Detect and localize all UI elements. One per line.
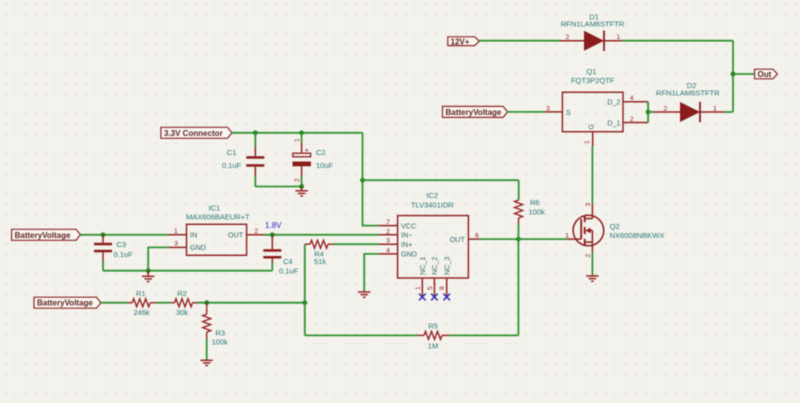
svg-text:NC_2: NC_2 <box>430 257 439 275</box>
svg-text:4: 4 <box>630 95 634 102</box>
svg-text:OUT: OUT <box>228 231 244 240</box>
svg-text:RFN1LAM6STFTR: RFN1LAM6STFTR <box>561 20 625 29</box>
svg-text:IN+: IN+ <box>401 240 412 249</box>
ground below IC2 <box>358 292 370 297</box>
svg-text:IN−: IN− <box>401 231 412 240</box>
wire D1 to corner <box>622 40 733 42</box>
wire bottom rail C3 to C4 <box>103 270 272 272</box>
svg-text:1: 1 <box>565 232 569 239</box>
svg-text:3.3V Connector: 3.3V Connector <box>164 129 223 138</box>
svg-text:BatteryVoltage: BatteryVoltage <box>15 231 71 240</box>
IC op-amp IC1 <box>168 224 264 255</box>
no-connect X marks <box>419 294 450 301</box>
node Q1 drains <box>646 110 651 115</box>
wire OUT vertical <box>517 239 519 335</box>
svg-text:RFN1LAM6STFTR: RFN1LAM6STFTR <box>656 89 720 98</box>
svg-text:8: 8 <box>439 286 446 290</box>
svg-text:1: 1 <box>713 105 717 112</box>
node divider to R4/R5 <box>302 300 307 305</box>
svg-text:NC_3: NC_3 <box>442 257 451 275</box>
svg-text:S: S <box>566 108 571 117</box>
wire IC1 OUT to IC2 IN- <box>264 234 379 236</box>
node C4 top <box>270 232 275 237</box>
svg-text:BatteryVoltage: BatteryVoltage <box>37 299 93 308</box>
svg-text:1M: 1M <box>428 342 438 351</box>
node Out junction <box>731 72 736 77</box>
svg-text:IN: IN <box>190 231 197 240</box>
wire C1 bottom to C2 bottom <box>255 186 301 188</box>
wire D2 to corner <box>724 111 733 113</box>
wire to D2 <box>648 111 653 113</box>
svg-text:0.1uF: 0.1uF <box>279 266 299 275</box>
wire R1 to R2 <box>157 302 171 304</box>
wire Q1 drain pins join <box>647 102 649 123</box>
svg-text:R6: R6 <box>530 198 540 207</box>
wire bottom rail to R5 <box>305 334 417 336</box>
wire R4/R5 vertical branch <box>304 244 306 335</box>
wire BatteryVoltage to R1 <box>101 302 128 304</box>
ground below C2 <box>295 187 307 197</box>
svg-text:100k: 100k <box>212 338 229 347</box>
svg-text:TLV3401IDR: TLV3401IDR <box>411 200 454 209</box>
svg-text:3: 3 <box>546 105 550 112</box>
wire BatteryVoltage to IC1 IN <box>80 234 168 236</box>
svg-text:246k: 246k <box>133 308 150 317</box>
svg-text:10uF: 10uF <box>316 161 334 170</box>
svg-text:1: 1 <box>584 140 591 144</box>
wire vertical to D2 row <box>732 41 734 112</box>
svg-text:C2: C2 <box>316 148 326 157</box>
node C2 ground <box>299 184 304 189</box>
node IC1 ground <box>146 268 151 273</box>
svg-text:100k: 100k <box>529 208 546 217</box>
net label BatteryVoltage (divider) <box>34 297 101 308</box>
svg-text:0.1uF: 0.1uF <box>222 161 242 170</box>
svg-text:1: 1 <box>294 138 301 142</box>
svg-text:0.1uF: 0.1uF <box>114 250 134 259</box>
node R3 top <box>204 300 209 305</box>
svg-text:NX6008NBKWX: NX6008NBKWX <box>610 231 665 240</box>
wire R2 to R4 branch <box>197 302 305 304</box>
net label BatteryVoltage (IC1) <box>12 229 81 240</box>
diode D2 <box>653 102 724 123</box>
wire IC2 OUT to junction <box>479 238 518 240</box>
ground below IC1 <box>142 271 154 282</box>
svg-text:30k: 30k <box>176 308 188 317</box>
svg-text:2: 2 <box>254 228 258 235</box>
net label 12V+ <box>448 37 479 47</box>
svg-text:3: 3 <box>174 241 178 248</box>
resistor R4 <box>305 240 379 248</box>
IC comparator IC2 <box>379 216 479 297</box>
ground below R3 <box>201 360 213 365</box>
svg-text:2: 2 <box>664 105 668 112</box>
diode D1 <box>560 31 622 52</box>
svg-text:1: 1 <box>415 286 422 290</box>
svg-text:FQT3P2QTF: FQT3P2QTF <box>571 76 615 85</box>
wire to Out label <box>733 73 755 75</box>
wire 12V+ to D1 <box>479 40 560 42</box>
svg-text:GND: GND <box>190 243 206 252</box>
transistor Q2 MOSFET <box>567 204 604 253</box>
svg-text:R1: R1 <box>136 289 146 298</box>
svg-text:1: 1 <box>617 34 621 41</box>
svg-text:3: 3 <box>386 238 390 245</box>
wire Q1 G to Q2 drain <box>591 146 593 204</box>
node C2 top <box>299 130 304 135</box>
capacitor C4 <box>263 235 281 271</box>
svg-text:NC_1: NC_1 <box>418 257 427 275</box>
svg-text:VCC: VCC <box>401 221 416 230</box>
svg-text:C4: C4 <box>283 257 293 266</box>
svg-text:GND: GND <box>401 250 417 259</box>
svg-text:2: 2 <box>566 34 570 41</box>
svg-text:C3: C3 <box>117 240 127 249</box>
svg-text:IC1: IC1 <box>208 203 220 212</box>
node C3 top <box>101 232 106 237</box>
node R6 branch <box>360 178 365 183</box>
svg-text:MAX606BAEUR+T: MAX606BAEUR+T <box>186 212 250 221</box>
wire OUT to Q2 gate <box>518 238 567 240</box>
svg-text:R2: R2 <box>177 289 187 298</box>
svg-text:2: 2 <box>630 116 634 123</box>
svg-text:+: + <box>305 145 310 154</box>
svg-text:6: 6 <box>475 233 479 240</box>
svg-text:Out: Out <box>758 70 772 79</box>
wire IC1 GND to ground <box>148 247 168 270</box>
svg-text:51k: 51k <box>314 257 326 266</box>
resistor R6 <box>515 180 523 239</box>
wire IC2 GND to ground <box>364 254 378 292</box>
svg-text:D_1: D_1 <box>607 118 620 127</box>
net label 3.3V Connector <box>161 127 232 138</box>
svg-text:R3: R3 <box>216 328 226 337</box>
svg-text:4: 4 <box>386 247 390 254</box>
resistor R1 <box>128 299 157 307</box>
resistor R3 <box>203 303 211 360</box>
wire Q2 source to ground <box>591 253 593 276</box>
capacitor C1 <box>246 133 264 187</box>
svg-text:D_2: D_2 <box>607 98 620 107</box>
net label Out <box>755 69 778 79</box>
ground below Q2 <box>586 276 598 281</box>
wire BatteryVoltage to Q1 S <box>508 111 546 113</box>
resistor R2 <box>171 299 198 307</box>
resistor R5 <box>417 331 449 339</box>
svg-text:BatteryVoltage: BatteryVoltage <box>446 108 502 117</box>
svg-text:1.8V: 1.8V <box>265 221 282 230</box>
node OUT junction <box>516 237 521 242</box>
transistor Q1 <box>545 92 648 146</box>
svg-text:3: 3 <box>585 203 592 207</box>
svg-text:OUT: OUT <box>450 235 466 244</box>
capacitor C2 polarized <box>293 133 311 187</box>
node C1 top <box>253 130 258 135</box>
svg-text:2: 2 <box>386 228 390 235</box>
svg-text:5: 5 <box>427 286 434 290</box>
wire branch to R6 <box>363 179 519 181</box>
svg-text:2: 2 <box>585 254 592 258</box>
svg-text:G: G <box>587 124 596 130</box>
svg-text:Q2: Q2 <box>610 222 620 231</box>
svg-text:C1: C1 <box>227 148 237 157</box>
svg-text:IC2: IC2 <box>426 191 438 200</box>
capacitor C3 <box>94 235 112 271</box>
svg-text:2: 2 <box>294 178 301 182</box>
svg-text:7: 7 <box>386 219 390 226</box>
net label BatteryVoltage (Q1) <box>443 106 508 117</box>
wire 3.3V rail <box>232 132 363 134</box>
svg-text:R5: R5 <box>428 321 438 330</box>
svg-text:Q1: Q1 <box>586 67 596 76</box>
svg-text:12V+: 12V+ <box>451 37 470 46</box>
wire 3.3V down to VCC <box>363 133 379 226</box>
svg-text:1: 1 <box>174 228 178 235</box>
wire R5 to OUT vertical <box>449 334 518 336</box>
